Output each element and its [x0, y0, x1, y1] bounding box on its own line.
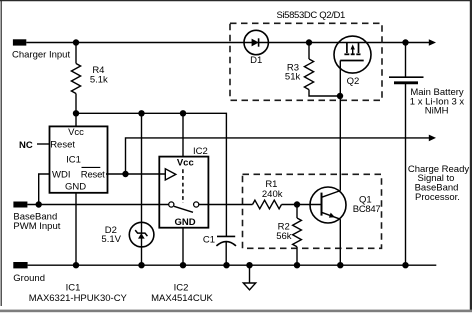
svg-text:BC847: BC847	[353, 204, 381, 215]
wire: R1 to Q1 base	[282, 204, 322, 206]
node: gnd/IC2	[180, 262, 186, 268]
node: rail/R3 junction	[306, 39, 312, 45]
battery cell	[389, 77, 424, 83]
node: gnd/symbol	[246, 262, 252, 268]
node: Vcc/IC2 junction	[180, 110, 186, 116]
IC1 box MAX6321	[50, 126, 108, 192]
svg-text:240k: 240k	[262, 189, 283, 200]
wire: IC1 reset output to IC2 buffer	[106, 173, 165, 175]
capacitor C1 top plate	[217, 235, 235, 237]
wire: battery node to charge arrow	[406, 42, 430, 44]
wire: IC2 Vcc pin	[182, 113, 184, 156]
switch blade	[174, 206, 193, 212]
wire: NC stub to Reset pin	[37, 143, 49, 145]
IC2 box MAX4514	[159, 157, 208, 228]
buffer triangle (IC2)	[165, 169, 176, 180]
wire: R2 top lead	[296, 205, 298, 219]
dashed box Q1	[243, 174, 382, 248]
dashed control line (IC2)	[182, 169, 184, 203]
svg-text:IC1: IC1	[66, 155, 81, 166]
node: R3/gate junction	[337, 93, 343, 99]
wire: Vcc rail	[76, 113, 226, 236]
label Charge Ready Signal	[408, 164, 470, 203]
wire: D2 branch (Vcc to ground)	[141, 113, 143, 265]
svg-text:Reset: Reset	[81, 169, 105, 180]
svg-text:MAX6321-HPUK30-CY: MAX6321-HPUK30-CY	[29, 293, 128, 304]
terminal: BaseBand PWM Input	[13, 202, 27, 208]
svg-text:5.1V: 5.1V	[101, 234, 121, 245]
node: reset/charge-ready junction	[122, 171, 128, 177]
switch contact left	[169, 202, 174, 207]
transistor Q1 (NPN BC847)	[310, 187, 346, 223]
node: Vcc/R4/IC1 junction	[73, 110, 79, 116]
wire: Q2 gate to Q1 collector	[339, 61, 341, 191]
svg-text:Charger Input: Charger Input	[12, 50, 70, 61]
wire: R4 bottom lead	[75, 94, 77, 114]
resistor R1	[253, 200, 282, 209]
svg-text:WDI: WDI	[52, 169, 70, 180]
svg-text:GND: GND	[174, 217, 195, 228]
resistor R4	[71, 64, 80, 94]
ground symbol	[243, 265, 255, 290]
wire: IC2 GND pin to ground rail	[182, 228, 184, 266]
svg-text:Si5853DC Q2/D1: Si5853DC Q2/D1	[276, 10, 345, 21]
svg-text:NC: NC	[19, 140, 33, 151]
wire: charger rail (Charger Input to battery node, through D1 and Q2)	[26, 42, 405, 44]
terminal: Ground	[13, 262, 27, 268]
svg-text:5.1k: 5.1k	[90, 74, 108, 85]
svg-text:IC1: IC1	[66, 282, 81, 293]
wire: C1 to ground rail	[225, 242, 227, 266]
node: gnd/R2	[294, 262, 300, 268]
node: R1/R2/base junction	[294, 201, 300, 207]
svg-text:MAX4514CUK: MAX4514CUK	[151, 293, 213, 304]
node: gnd/Q1 emitter	[337, 262, 343, 268]
node: rail/battery junction	[402, 39, 408, 45]
wire: reset line to charge-ready arrow	[126, 138, 430, 174]
wire: R3 top lead	[308, 43, 310, 60]
node: gnd/C1	[223, 262, 229, 268]
svg-text:IC2: IC2	[174, 282, 189, 293]
zener diode D2	[129, 222, 154, 247]
wire: IC1 GND pin to ground rail	[75, 193, 77, 265]
svg-text:Reset: Reset	[50, 140, 75, 151]
wire: IC1 Vcc pin	[75, 113, 77, 126]
svg-text:Q2: Q2	[347, 76, 360, 87]
svg-text:C1: C1	[203, 234, 215, 245]
wire: R3 bottom lead to gate node	[309, 90, 340, 96]
wire: R2 bottom lead	[296, 247, 298, 265]
wire: battery bottom lead to ground rail	[405, 83, 407, 265]
node: gnd/IC1	[73, 262, 79, 268]
node: gnd/battery	[402, 262, 408, 268]
svg-text:D1: D1	[250, 55, 262, 66]
svg-text:GND: GND	[65, 182, 86, 193]
wire: ground rail	[28, 264, 437, 266]
node: Vcc/D2 junction	[138, 110, 144, 116]
svg-text:51k: 51k	[285, 72, 301, 83]
svg-text:PWM Input: PWM Input	[13, 221, 60, 232]
svg-text:Ground: Ground	[13, 273, 45, 284]
terminal: Charger Input	[13, 39, 26, 45]
svg-text:IC2: IC2	[193, 146, 208, 157]
switch contact right	[194, 202, 199, 207]
wire: Q1 emitter to ground rail	[339, 219, 341, 265]
wire: switch output to R1	[199, 204, 253, 206]
svg-text:Vcc: Vcc	[177, 158, 194, 169]
svg-text:NiMH: NiMH	[425, 106, 449, 117]
node: gnd/D2	[138, 262, 144, 268]
diode D1	[244, 30, 268, 54]
arrowhead: charger rail output	[429, 39, 436, 46]
dashed box Si5853DC	[230, 23, 382, 100]
resistor R2	[293, 218, 302, 247]
wire: battery top lead	[405, 43, 407, 78]
node: charger/R4 junction	[73, 39, 79, 45]
svg-text:56k: 56k	[276, 231, 292, 242]
svg-text:Processor.: Processor.	[415, 192, 460, 203]
svg-text:Vcc: Vcc	[68, 127, 84, 138]
wire: WDI to PWM line	[39, 174, 49, 205]
wire: PWM input line to IC2 switch	[27, 204, 168, 206]
bottom gray rule	[0, 310, 472, 313]
wire: R4 top lead	[75, 43, 77, 64]
arrowhead: charge ready signal	[429, 135, 436, 142]
resistor R3	[304, 59, 313, 90]
transistor Q2 (p-MOSFET)	[334, 36, 371, 73]
node: WDI/PWM junction	[36, 201, 42, 207]
capacitor C1 curved plate	[216, 242, 236, 246]
